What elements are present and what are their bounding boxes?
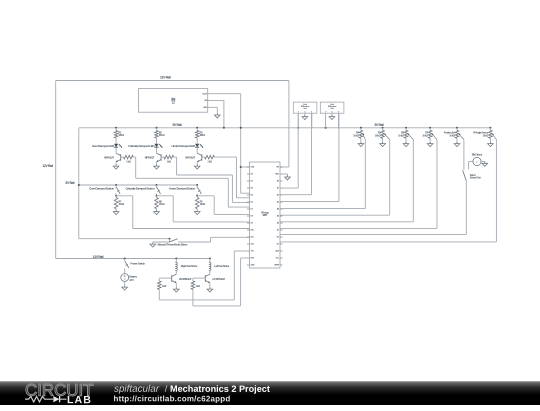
wire: VDD into IC pin1	[241, 166, 250, 168]
svg-text:10 kΩ: 10 kΩ	[449, 134, 455, 137]
IC pin stubs row 8	[247, 215, 250, 217]
svg-text:GND: GND	[275, 174, 280, 176]
transistor Q4 HV NPN BJT	[171, 275, 173, 282]
svg-text:A3: A3	[277, 201, 279, 204]
svg-text:Over Damped LED: Over Damped LED	[92, 144, 115, 148]
ground (pot P4)	[427, 142, 433, 147]
ground (LED driver Q1)	[113, 164, 119, 169]
5V top rail net	[79, 127, 491, 129]
transistor Q5 HV NPN BJT	[204, 275, 206, 282]
svg-text:VOUT: VOUT	[202, 94, 208, 96]
resistor base R4 1k	[121, 156, 124, 158]
IC pin stubs row 9	[247, 222, 250, 224]
switch SW4 Manual/Power Mode Select	[169, 238, 171, 240]
wire: aux into IC	[241, 192, 250, 194]
svg-text:D12: D12	[251, 244, 254, 246]
svg-text:Unit: Unit	[304, 107, 308, 110]
pushbutton SW1 Over Damped Button	[115, 184, 117, 186]
svg-text:10 kΩ: 10 kΩ	[375, 134, 381, 137]
inductor L2 Left Fan Motor	[209, 258, 211, 260]
switch SW6 Power Switch	[124, 258, 126, 260]
svg-text:10 kΩ: 10 kΩ	[422, 134, 428, 137]
potentiometer P3 R6	[405, 127, 407, 129]
wire: IC right pin y241.9	[280, 241, 496, 243]
IC pin stubs row 7	[247, 208, 250, 210]
svg-text:Left Fan Motor: Left Fan Motor	[214, 264, 229, 268]
svg-text:Manual / Power Mode Select: Manual / Power Mode Select	[158, 243, 188, 247]
transistor Q2 NPN BJT	[160, 154, 162, 161]
svg-text:10 kΩ: 10 kΩ	[200, 203, 206, 206]
svg-text:1 kΩ: 1 kΩ	[126, 161, 131, 164]
12V bottom rail	[56, 258, 210, 260]
svg-text:SDA: SDA	[275, 250, 279, 253]
wire: IC gnd pin	[280, 173, 288, 175]
svg-text:D4: D4	[251, 187, 254, 190]
ground (pot P5)	[454, 142, 460, 147]
IC pin stubs row 1	[247, 166, 250, 168]
5V mid rail (buttons)	[79, 184, 197, 186]
ground (box U3)	[302, 115, 308, 120]
LED D2 Critically Damped LED	[154, 144, 158, 147]
ground (LED driver Q2)	[154, 164, 160, 169]
LED D1 Over Damped LED	[114, 144, 118, 147]
wire: pot5 wiper to switch throw	[463, 140, 465, 170]
svg-text:D5: D5	[251, 195, 254, 197]
svg-text:D9: D9	[251, 223, 253, 225]
svg-text:HV NPN BJT: HV NPN BJT	[179, 278, 192, 281]
svg-text:328P: 328P	[262, 215, 267, 217]
wire: IC right pin y228.4	[280, 227, 437, 229]
IC pin stubs row 14	[247, 257, 250, 259]
battery V1 12V	[121, 274, 129, 282]
wire: regulator VOUT to 5V	[208, 93, 241, 95]
switch SW5 Select Strobe/Deterrent	[463, 170, 467, 181]
svg-text:A0: A0	[277, 180, 279, 183]
logo diode	[53, 396, 59, 402]
ground (button 2)	[154, 210, 160, 215]
wire: mode switch to IC	[178, 241, 210, 243]
svg-text:D0: D0	[277, 237, 279, 239]
svg-text:1 kΩ: 1 kΩ	[207, 161, 212, 164]
wire: IC right pin y234.4	[280, 233, 466, 235]
svg-text:5V Rail: 5V Rail	[65, 181, 74, 185]
12V top rail net	[56, 80, 289, 82]
resistor base R6 1k	[202, 156, 205, 158]
IC pin stubs row 13	[247, 250, 250, 252]
inductor L1 Right Fan Motor	[175, 258, 177, 260]
wire: 5V bottom to mode switch	[79, 238, 170, 240]
svg-text:NPN BJT: NPN BJT	[145, 156, 155, 160]
wire: IC right pin y188.1	[280, 187, 298, 189]
wire: box pins	[325, 113, 327, 128]
ground (LED driver Q3)	[194, 164, 200, 169]
pushbutton SW2 Critically Damped Button	[156, 184, 158, 186]
ground (battery)	[122, 285, 128, 290]
svg-text:/: /	[165, 383, 168, 393]
pushbutton SW3 Under Damped Button	[196, 184, 198, 186]
svg-text:Under Damped LED: Under Damped LED	[172, 144, 197, 148]
wire: IC right pin y208.6	[280, 208, 365, 210]
ground (pot P3)	[403, 142, 409, 147]
IC pin stubs row 4	[247, 187, 250, 189]
wire: regulator pin2	[208, 99, 224, 101]
svg-text:VDD: VDD	[251, 167, 255, 169]
svg-text:Mechatronics 2 Project: Mechatronics 2 Project	[170, 383, 270, 393]
svg-text:10 kΩ: 10 kΩ	[483, 134, 489, 137]
logo resistor zigzag	[25, 396, 53, 402]
svg-text:A1: A1	[277, 187, 280, 190]
ground (BNC)	[482, 162, 488, 167]
svg-text:Unit: Unit	[331, 107, 335, 110]
ground (motor Q5)	[207, 287, 213, 292]
svg-text:D3: D3	[251, 181, 253, 183]
wire: button 3 to IC	[196, 195, 198, 197]
potentiometer P5 Position Set	[456, 127, 458, 129]
svg-text:+ −: + −	[476, 161, 479, 163]
ground (IC)	[285, 175, 291, 180]
wire: button 1 to IC	[115, 195, 117, 197]
svg-text:10 kΩ: 10 kΩ	[398, 134, 404, 137]
resistor pulldown R7 10k	[115, 196, 117, 198]
IC pin stubs row 12	[247, 243, 250, 245]
transistor Q1 NPN BJT	[120, 154, 122, 161]
svg-text:Critically Damped LED: Critically Damped LED	[128, 144, 155, 148]
resistor pulldown R9 10k	[196, 196, 198, 198]
wire: IC right pin y194.7	[280, 194, 312, 196]
ground (button 1)	[113, 210, 119, 215]
IC pin stubs row 11	[247, 236, 250, 238]
svg-text:A4: A4	[277, 208, 280, 211]
ground (pot P6)	[488, 142, 494, 147]
wire: Q3 base to IC	[214, 156, 236, 158]
svg-text:Under Damped Button: Under Damped Button	[169, 186, 196, 190]
svg-text:VIN: VIN	[276, 167, 279, 169]
svg-text:D10: D10	[251, 230, 254, 232]
IC U4 sensor box	[320, 102, 344, 113]
ground (pot P1)	[358, 142, 364, 147]
transistor Q3 NPN BJT	[201, 154, 203, 161]
svg-text:Critically Damped Button: Critically Damped Button	[125, 186, 154, 190]
svg-text:BNC Input: BNC Input	[472, 153, 483, 156]
svg-text:5V Rail: 5V Rail	[173, 123, 182, 127]
wire: IC right pin y201.6	[280, 201, 339, 203]
wire: 12V drop to IC VIN	[288, 81, 290, 168]
svg-text:RX0: RX0	[251, 258, 254, 260]
svg-text:10 kΩ: 10 kΩ	[119, 203, 125, 206]
svg-text:1 kΩ: 1 kΩ	[167, 161, 172, 164]
svg-text:D7: D7	[251, 209, 253, 211]
svg-text:12V Rail: 12V Rail	[93, 255, 104, 259]
svg-text:330 Ω: 330 Ω	[200, 134, 206, 137]
svg-text:D8: D8	[251, 216, 254, 218]
IC pin stubs row 3	[247, 180, 250, 182]
voltage regulator U2	[139, 89, 208, 113]
svg-text:A2: A2	[277, 194, 279, 197]
wire: left 5V vertical	[78, 128, 80, 239]
resistor base R5 1k	[161, 156, 164, 158]
wire: button 2 to IC	[156, 195, 158, 197]
ground (box U4)	[329, 115, 335, 120]
svg-text:GND: GND	[203, 107, 208, 109]
wire: left 12V vertical	[55, 81, 57, 259]
svg-text:VIN: VIN	[204, 100, 208, 102]
svg-text:A6: A6	[277, 222, 279, 225]
svg-text:SCL: SCL	[276, 258, 280, 260]
svg-text:12V Rail: 12V Rail	[160, 76, 171, 80]
svg-text:spiftacular: spiftacular	[114, 383, 160, 394]
ground (regulator)	[215, 113, 221, 118]
svg-text:330 Ω: 330 Ω	[159, 134, 165, 137]
wire: IC right pin y215.2	[280, 214, 390, 216]
LED D3 Under Damped LED	[195, 144, 199, 147]
svg-text:http://circuitlab.com/c62appd: http://circuitlab.com/c62appd	[113, 394, 230, 403]
wire: motor base to IC	[192, 290, 194, 306]
IC pin stubs row 15	[247, 264, 250, 266]
svg-text:10 kΩ: 10 kΩ	[159, 203, 165, 206]
ground (button 3)	[194, 210, 200, 215]
IC pin stubs row 6	[247, 201, 250, 203]
IC pin stubs row 2	[247, 173, 250, 175]
ground (motor Q4)	[174, 287, 180, 292]
svg-text:Power Switch: Power Switch	[131, 261, 146, 265]
svg-text:NPN BJT: NPN BJT	[104, 156, 114, 160]
svg-text:A5: A5	[277, 215, 280, 218]
svg-text:AREF: AREF	[274, 264, 280, 267]
svg-text:Over Damped Button: Over Damped Button	[89, 186, 114, 190]
svg-text:330 Ω: 330 Ω	[119, 134, 125, 137]
wire: Q2 base to IC	[174, 156, 177, 158]
potentiometer P2 R5	[382, 127, 384, 129]
svg-text:12 V: 12 V	[129, 278, 134, 282]
resistor base 1k (motor 1)	[159, 277, 171, 279]
wire: box pins	[297, 113, 299, 128]
wire: regulator GND pin	[208, 106, 218, 108]
potentiometer P4 R7	[429, 127, 431, 129]
svg-text:1 kΩ: 1 kΩ	[196, 285, 201, 288]
svg-text:ATmega: ATmega	[261, 212, 269, 215]
svg-text:GND: GND	[251, 265, 256, 267]
resistor pulldown R8 10k	[156, 196, 158, 198]
svg-text:HV NPN BJT: HV NPN BJT	[213, 278, 226, 281]
svg-text:D6: D6	[251, 202, 253, 204]
svg-text:12V Rail: 12V Rail	[42, 164, 53, 168]
IC U3 sensor box	[293, 102, 317, 113]
resistor R2 (LED series)	[156, 127, 158, 129]
resistor base 1k (motor 2)	[193, 277, 205, 279]
svg-text:D11: D11	[251, 237, 255, 239]
svg-text:D1: D1	[277, 244, 280, 246]
IC pin stubs row 5	[247, 194, 250, 196]
svg-text:LAB: LAB	[67, 394, 92, 406]
wire: IC right pin y221.8	[280, 221, 413, 223]
op-amp U1 microcontroller	[250, 162, 281, 268]
resistor R1 (LED series)	[115, 127, 117, 129]
svg-text:A7: A7	[277, 229, 279, 232]
svg-text:1 kΩ: 1 kΩ	[162, 285, 167, 288]
IC pin stubs row 10	[247, 229, 250, 231]
svg-text:5V Rail: 5V Rail	[375, 123, 384, 127]
svg-text:Strobe / Det: Strobe / Det	[470, 177, 481, 180]
potentiometer P1 R4	[360, 127, 362, 129]
svg-text:10 kΩ: 10 kΩ	[353, 134, 359, 137]
ground (pot P2)	[380, 142, 386, 147]
svg-text:Right Fan Motor: Right Fan Motor	[181, 264, 198, 268]
resistor R3 (LED series)	[196, 127, 198, 129]
svg-text:TX1: TX1	[251, 251, 255, 253]
potentiometer P6 IP Angle Sensor	[489, 127, 491, 129]
wire: motor base to IC	[158, 290, 160, 300]
svg-text:NPN BJT: NPN BJT	[185, 156, 195, 160]
svg-text:D2: D2	[251, 174, 253, 176]
wire: Q1 base to IC	[133, 156, 135, 158]
